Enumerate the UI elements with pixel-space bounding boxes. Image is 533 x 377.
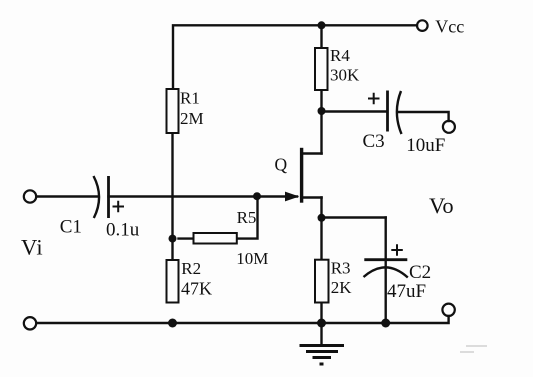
svg-text:30K: 30K xyxy=(330,66,360,85)
svg-text:0.1u: 0.1u xyxy=(106,220,140,241)
svg-text:R4: R4 xyxy=(330,46,350,65)
svg-text:Vo: Vo xyxy=(429,193,454,218)
svg-text:C3: C3 xyxy=(363,131,385,152)
svg-text:C2: C2 xyxy=(409,262,431,283)
svg-text:R5: R5 xyxy=(237,208,257,227)
svg-text:10uF: 10uF xyxy=(406,135,445,156)
svg-text:R3: R3 xyxy=(331,258,351,277)
svg-text:R2: R2 xyxy=(181,259,201,278)
svg-text:2K: 2K xyxy=(331,278,353,297)
svg-text:R1: R1 xyxy=(180,89,200,108)
svg-text:47uF: 47uF xyxy=(387,281,426,302)
svg-text:47K: 47K xyxy=(181,278,212,298)
svg-text:Q: Q xyxy=(275,155,288,175)
svg-text:Vcc: Vcc xyxy=(435,17,464,37)
svg-text:10M: 10M xyxy=(236,249,268,268)
svg-text:2M: 2M xyxy=(180,109,204,128)
svg-text:C1: C1 xyxy=(60,217,82,238)
svg-text:Vi: Vi xyxy=(21,234,43,259)
